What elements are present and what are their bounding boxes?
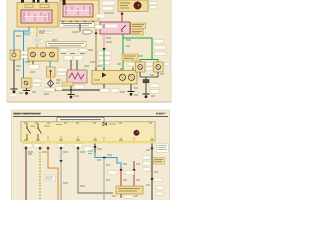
pin ticks on rear combination lamp box	[95, 68, 134, 70]
labels below rear combination lamp box	[100, 89, 119, 93]
green wire into rear lamp box	[103, 50, 105, 70]
labels near ground bus	[44, 82, 84, 92]
key reminder switch component	[47, 67, 56, 77]
rear combination lamp box	[92, 71, 137, 85]
ground symbol center	[68, 95, 75, 99]
page 2 page number	[156, 112, 166, 115]
small labels below center strip	[60, 49, 93, 54]
main control unit box (page 2)	[21, 122, 155, 144]
red wire 2 (page 2)	[133, 161, 135, 186]
olive dashed wire (page 2)	[39, 146, 41, 200]
page 2 header rule	[13, 115, 168, 117]
label boxes right of key interlock switch	[131, 23, 146, 35]
ground far left	[9, 89, 18, 97]
switch symbol 1 inside control unit	[26, 124, 30, 141]
yellow wire into rear lamp box	[132, 58, 134, 71]
pin number ticks control unit (page 2)	[24, 123, 154, 140]
pink wire from key interlock switch down	[103, 34, 105, 50]
green branch wire to right lamp squares	[123, 38, 158, 62]
labels on red wires	[108, 171, 134, 175]
teal wire code label (page 2)	[88, 151, 93, 154]
gray branch wire (page 2)	[103, 158, 105, 201]
page 2 header title text	[13, 112, 41, 115]
room lamp component (blue branch 2)	[22, 78, 32, 88]
blue wire label	[24, 33, 31, 35]
relay box (top-center)	[60, 0, 99, 21]
labels left of black wire (page 2)	[143, 156, 165, 196]
orange wire L-shape (page 2)	[47, 146, 58, 200]
red wire from ignition switch to key interlock switch	[121, 12, 123, 23]
right license lamp square	[154, 62, 164, 72]
blue segment below lamp cluster	[49, 61, 51, 67]
ground under rear lamp box	[128, 84, 135, 96]
red wire 1 (page 2)	[120, 168, 122, 186]
blue staircase wire (page 2)	[95, 153, 121, 169]
page 2 title box	[57, 118, 104, 122]
label boxes right of green branch	[154, 40, 166, 56]
wires below license lamp squares	[140, 72, 158, 94]
pin and label below lamp cluster	[29, 61, 39, 69]
labels on license lamp ground wire	[150, 84, 159, 94]
connector pins above junction box	[21, 0, 48, 3]
wire colour code labels page 1	[16, 31, 164, 96]
door switch component (left)	[10, 50, 20, 60]
labels around license lamp squares	[128, 63, 170, 71]
wire colour code labels page 2	[28, 149, 158, 196]
label box on relay output wire	[45, 29, 53, 34]
labels right of key reminder switch	[57, 68, 67, 75]
blue wire from junction box (left branch)	[14, 27, 29, 50]
ignition switch box with key cylinder (top-right)	[118, 0, 148, 12]
green wire from key interlock switch down to rear lamp box	[122, 34, 124, 71]
label boxes right of ignition switch	[150, 2, 158, 9]
white wire with outline (page 2)	[77, 146, 113, 193]
black wire right side (page 2)	[151, 144, 153, 201]
stop lamp switch (waveform box)	[67, 70, 87, 83]
connector pin above relay box	[63, 0, 66, 5]
small text marks inside control unit	[30, 125, 62, 127]
clutch switch box (page 2 bottom)	[116, 186, 143, 194]
indicator circle inside control unit	[134, 130, 139, 135]
labels between relay box and ignition switch	[96, 1, 115, 18]
key interlock switch (pink box)	[100, 22, 130, 34]
pin labels below control unit	[24, 144, 82, 148]
page 1 background	[7, 0, 172, 103]
switch symbol 2 inside control unit	[37, 124, 41, 141]
label box on orange wire	[44, 175, 55, 181]
maroon wire (page 2)	[25, 146, 27, 200]
label strip under relay box	[60, 22, 95, 28]
pin ticks below relay box	[62, 21, 94, 23]
marks below clutch switch box	[121, 194, 132, 198]
interior pin stubs control unit	[48, 136, 152, 141]
wire from door switch to ground	[13, 60, 15, 89]
connector diamond symbol	[46, 80, 55, 91]
label right of door switch	[21, 51, 30, 58]
labels right of room lamp	[33, 79, 42, 87]
shift lock label box	[122, 54, 138, 61]
page 2 background	[11, 110, 170, 201]
alarm system label box (page 2)	[154, 158, 165, 165]
tall label box top right (page 2)	[157, 144, 169, 153]
ground under license lamps	[143, 94, 150, 98]
ground bus wire	[50, 83, 104, 95]
gray wire (page 2)	[60, 146, 62, 200]
wire from room lamp to ground	[23, 88, 30, 95]
blue wire second branch down	[23, 31, 25, 78]
black lead below control unit (page 2 center)	[84, 144, 96, 153]
interior lamp cluster box	[28, 48, 58, 61]
center label strip	[46, 42, 86, 48]
yellow wire from junction box	[33, 27, 43, 48]
label boxes on pink/green wire column	[98, 51, 111, 65]
orange segment to connector diamond	[50, 77, 52, 80]
left license lamp square	[136, 62, 146, 72]
wires into stop lamp switch (waveform box)	[64, 56, 83, 71]
diode symbol inside control unit	[103, 122, 116, 125]
brown wire from relay label strip to rear lamp box	[95, 25, 102, 70]
off-page arrow reference	[72, 24, 93, 34]
junction box J/B (top-left)	[17, 3, 58, 28]
